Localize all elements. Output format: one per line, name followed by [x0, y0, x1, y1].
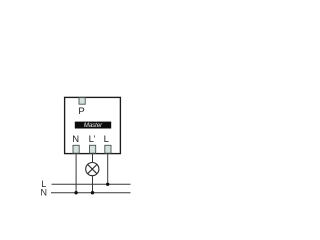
net N line: [51, 192, 131, 194]
Master nameplate: [75, 122, 111, 129]
junction dot L wire: [106, 183, 109, 186]
device box U1 (Master): [65, 97, 121, 153]
svg-text:N: N: [72, 134, 79, 145]
svg-text:L: L: [104, 134, 109, 145]
svg-text:N: N: [40, 187, 47, 197]
terminal P pad: [79, 98, 85, 105]
svg-text:Master: Master: [84, 123, 103, 129]
terminal L pad: [105, 145, 111, 153]
net L line: [52, 183, 131, 185]
lamp E1: [86, 163, 99, 176]
wire L' to lamp: [92, 153, 94, 162]
terminal N pad: [73, 145, 79, 153]
terminal L' pad: [90, 145, 96, 153]
wire N vertical: [75, 153, 77, 193]
junction dot N wire: [74, 191, 77, 194]
wire lamp to N line: [92, 176, 94, 193]
junction dot lamp return: [91, 191, 94, 194]
svg-text:P: P: [78, 106, 84, 117]
svg-text:L’: L’: [89, 134, 96, 145]
wire L vertical: [107, 153, 109, 184]
